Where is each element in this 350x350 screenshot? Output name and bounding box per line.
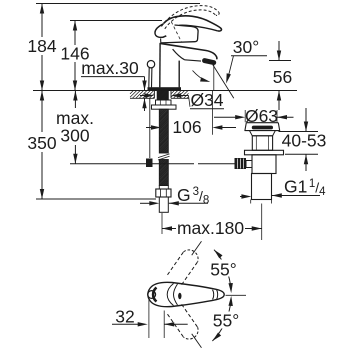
svg-text:184: 184 xyxy=(27,36,56,56)
svg-text:max.180: max.180 xyxy=(177,218,244,238)
svg-text:300: 300 xyxy=(60,126,89,146)
svg-text:max.30: max.30 xyxy=(81,58,139,78)
svg-text:56: 56 xyxy=(273,67,292,87)
svg-text:40-53: 40-53 xyxy=(282,131,327,151)
svg-text:Ø34: Ø34 xyxy=(190,90,223,110)
svg-text:32: 32 xyxy=(115,307,134,327)
svg-text:30°: 30° xyxy=(233,37,259,57)
svg-text:350: 350 xyxy=(27,133,56,153)
svg-text:106: 106 xyxy=(172,117,201,137)
svg-text:55°: 55° xyxy=(213,311,239,331)
svg-text:55°: 55° xyxy=(210,260,236,280)
